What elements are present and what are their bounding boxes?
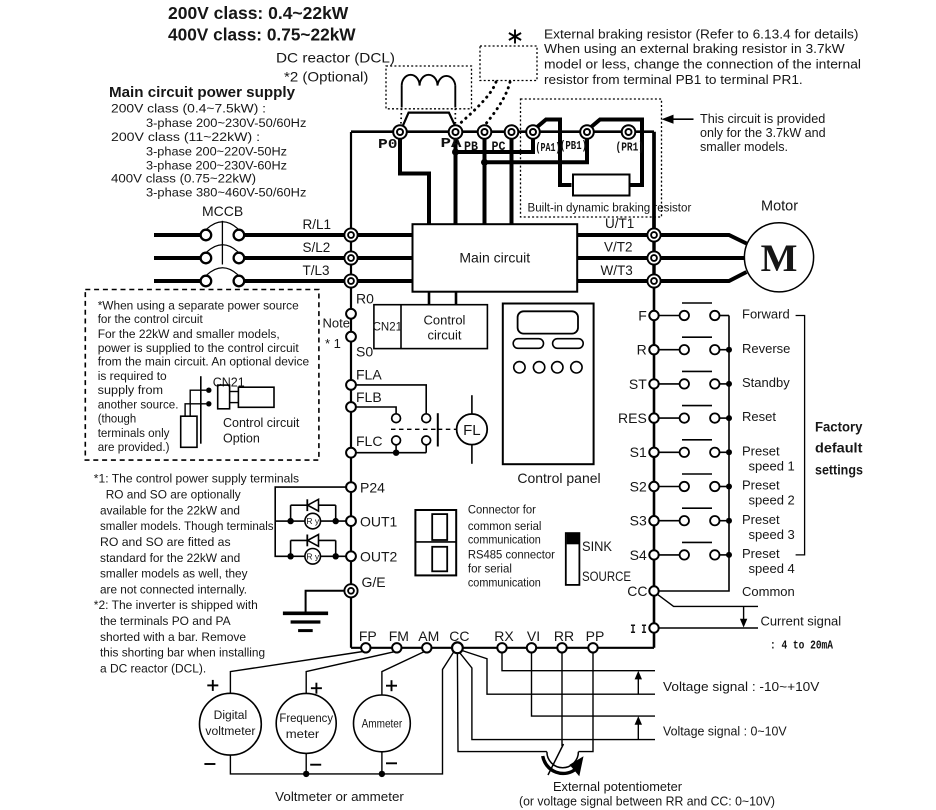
polarity minus — [310, 764, 321, 766]
svg-text:DC reactor (DCL): DC reactor (DCL) — [276, 50, 395, 66]
junction bus S1 — [726, 449, 732, 455]
breaker contact — [201, 230, 212, 241]
switch input R — [649, 337, 729, 354]
wire left bus — [350, 132, 352, 648]
svg-text:MCCB: MCCB — [202, 203, 243, 219]
terminal U/T1 — [647, 228, 660, 241]
polarity minus — [386, 762, 397, 764]
svg-text:Connector for: Connector for — [468, 503, 536, 517]
wire RX voltage top — [502, 653, 655, 671]
svg-text:When using an external bra: When using an external braking resistor … — [544, 42, 845, 56]
svg-text:*1: The control power supp: *1: The control power supply terminals — [94, 472, 299, 486]
wire FP to voltmeter — [230, 652, 363, 694]
svg-text:Standby: Standby — [742, 375, 790, 390]
wire phase input y=235 — [154, 233, 201, 237]
svg-text:power is supplied to the: power is supplied to the control circuit — [98, 341, 300, 355]
note this circuit 3.7kW — [700, 111, 826, 154]
svg-text:S3: S3 — [630, 513, 647, 529]
terminal PB1 — [580, 125, 594, 139]
block Main circuit — [413, 224, 578, 292]
svg-text:*2 (Optional): *2 (Optional) — [284, 69, 368, 85]
junction bus RES — [726, 415, 732, 421]
terminal T/L3 — [358, 279, 413, 283]
terminal PO — [393, 125, 407, 139]
wire motor W lead — [661, 272, 747, 281]
svg-text:R/L1: R/L1 — [303, 217, 332, 232]
svg-text:400V class (0.75~22kW): 400V class (0.75~22kW) — [111, 172, 256, 186]
wire to ground — [306, 591, 345, 612]
svg-text:Preset: Preset — [742, 443, 780, 458]
svg-text:settings: settings — [815, 463, 863, 478]
svg-text:Main circuit: Main circuit — [459, 249, 530, 265]
svg-text:resistor from terminal PB1: resistor from terminal PB1 to terminal P… — [544, 73, 803, 87]
wire PP to pot right — [578, 653, 593, 752]
svg-text:G/E: G/E — [362, 574, 386, 590]
wire dotted to PA — [460, 82, 497, 124]
wire bottom terminal row — [351, 647, 654, 649]
svg-text:smaller models. Though term: smaller models. Though terminals — [100, 519, 274, 533]
svg-text:circuit: circuit — [428, 328, 462, 343]
wire stub main-to-control 2 — [455, 292, 458, 305]
svg-text:I I: I I — [630, 622, 647, 637]
breaker contact — [201, 253, 212, 264]
wire meters common — [230, 652, 453, 774]
svg-text:speed 4: speed 4 — [749, 561, 795, 576]
svg-text:S1: S1 — [630, 444, 647, 460]
asterisk marker — [509, 30, 521, 44]
note external braking resistor — [544, 28, 861, 88]
wire FLA to contact — [356, 385, 426, 414]
svg-text:FLA: FLA — [356, 367, 382, 383]
svg-text:RO and SO are optionally: RO and SO are optionally — [106, 487, 242, 501]
wire dotted to PB — [487, 82, 511, 123]
svg-text:OUT1: OUT1 — [360, 513, 398, 529]
connector RS485 icon — [415, 510, 456, 575]
svg-text:Motor: Motor — [761, 199, 798, 215]
wire CC to pot left — [457, 653, 547, 751]
svg-text:Voltmeter or ammeter: Voltmeter or ammeter — [275, 789, 404, 804]
annotation arrow to 3.7kW box — [662, 115, 694, 124]
diode freewheel OUT2 — [291, 535, 336, 557]
svg-text:Option: Option — [223, 432, 260, 446]
svg-text:R: R — [637, 342, 647, 358]
junction bus S2 — [726, 484, 732, 490]
svg-text:Current signal: Current signal — [761, 614, 842, 629]
wire FLB to contact — [356, 407, 396, 414]
diode freewheel OUT1 — [291, 499, 336, 521]
wire CC to 0-10 bottom — [460, 653, 655, 740]
meter M2 digital voltmeter — [200, 693, 262, 755]
motor M1 — [744, 223, 813, 292]
wire stub main-to-control 1 — [428, 292, 431, 305]
ground symbol — [283, 613, 328, 630]
svg-text:W/T3: W/T3 — [601, 263, 633, 278]
junction PB branch — [481, 159, 488, 166]
svg-text:VI: VI — [527, 628, 540, 644]
terminal V/T2 — [647, 251, 660, 264]
switch input RES — [649, 406, 729, 423]
svg-text:FLC: FLC — [356, 433, 382, 449]
polarity plus — [207, 684, 218, 686]
svg-text:for the control circuit: for the control circuit — [98, 312, 204, 326]
svg-text:T/L3: T/L3 — [303, 263, 330, 278]
arrow voltage signal 2 — [637, 723, 639, 740]
svg-text:S0: S0 — [356, 344, 373, 360]
switch SINK/SOURCE — [566, 533, 580, 585]
wire FLC common — [356, 452, 426, 454]
wire PA to PA1 — [456, 139, 534, 152]
svg-text:V/T2: V/T2 — [604, 240, 633, 255]
bracket factory default — [796, 316, 805, 555]
wire P24 rail — [275, 487, 346, 556]
svg-text:: 4 to 20mA: : 4 to 20mA — [770, 639, 834, 653]
svg-text:3-phase 380~460V-50/60Hz: 3-phase 380~460V-50/60Hz — [146, 185, 306, 199]
svg-text:available for the 22kW and: available for the 22kW and — [100, 503, 240, 517]
svg-text:(PB1): (PB1) — [560, 140, 587, 153]
svg-text:RS485 connector: RS485 connector — [468, 547, 555, 561]
svg-text:P24: P24 — [360, 479, 385, 495]
svg-text:model or less, change the: model or less, change the connection of … — [544, 58, 861, 72]
svg-text:from the main circuit. An: from the main circuit. An optional devic… — [98, 354, 310, 368]
terminal OUT1 — [346, 516, 356, 526]
svg-text:S4: S4 — [630, 547, 647, 563]
circuit breaker MCCB — [154, 221, 345, 287]
wire PR1 to U/T1 bus — [652, 132, 656, 230]
svg-text:the terminals PO and PA: the terminals PO and PA — [100, 614, 231, 628]
block Control circuit with CN21 — [373, 305, 488, 349]
wire rail to OUT1 branch — [275, 520, 290, 522]
wire CC to -10+10 bottom — [462, 651, 655, 695]
svg-text:another source.: another source. — [98, 397, 179, 411]
terminal FLB — [346, 402, 356, 412]
svg-text:200V class (11~22kW) :: 200V class (11~22kW) : — [111, 130, 260, 144]
svg-text:*2: The inverter is shippe: *2: The inverter is shipped with — [94, 598, 258, 612]
terminal R/L1 — [358, 233, 413, 237]
svg-text:Note: Note — [323, 316, 350, 331]
wire dotted reactor to PO — [400, 109, 403, 125]
svg-text:smaller models as well, th: smaller models as well, they — [100, 567, 248, 581]
svg-text:U/T1: U/T1 — [605, 216, 634, 231]
svg-text:this shorting bar when ins: this shorting bar when installing — [100, 646, 265, 660]
terminal W/T3 — [647, 274, 660, 287]
power supply spec text — [111, 102, 306, 200]
wire phase input y=258 — [154, 256, 201, 260]
svg-text:200V class: 0.4~22kW: 200V class: 0.4~22kW — [168, 3, 349, 23]
breaker linkage — [221, 221, 223, 265]
wire AM to ammeter — [382, 652, 424, 695]
polarity plus — [386, 685, 397, 687]
svg-text:Control circuit: Control circuit — [223, 416, 300, 430]
svg-text:200V class (0.4~7.5kW) :: 200V class (0.4~7.5kW) : — [111, 102, 266, 116]
terminal PA1 — [526, 125, 540, 139]
terminal PR1 — [622, 125, 636, 139]
svg-text:3-phase 200~230V-50/60Hz: 3-phase 200~230V-50/60Hz — [146, 116, 306, 130]
terminal II — [649, 623, 658, 632]
arrow current into II — [743, 606, 745, 621]
junction bus ST — [726, 381, 732, 387]
svg-text:are not connected internall: are not connected internally. — [100, 582, 247, 596]
connector CN21 option drawing — [181, 376, 274, 448]
svg-text:(or voltage signal between: (or voltage signal between RR and CC: 0~… — [519, 794, 775, 809]
terminal OUT2 — [346, 551, 356, 561]
svg-text:RR: RR — [554, 628, 574, 644]
svg-text:External braking resistor (R: External braking resistor (Refer to 6.13… — [544, 28, 858, 42]
svg-text:speed 3: speed 3 — [749, 527, 795, 542]
terminal G/E — [344, 584, 357, 597]
svg-text:meter: meter — [286, 727, 320, 741]
terminal CC right — [649, 586, 658, 595]
relay coil FL — [457, 395, 488, 464]
svg-text:smaller models.: smaller models. — [700, 139, 788, 154]
wire PB down to main circuit — [483, 139, 487, 225]
svg-text:3-phase 200~220V-50Hz: 3-phase 200~220V-50Hz — [146, 144, 287, 158]
svg-text:P0: P0 — [378, 138, 398, 153]
svg-text:External potentiometer: External potentiometer — [553, 779, 683, 794]
svg-text:RO and SO are fitted as: RO and SO are fitted as — [100, 535, 231, 549]
svg-text:R y: R y — [306, 516, 320, 526]
svg-text:standard for the 22kW and: standard for the 22kW and — [100, 551, 240, 565]
svg-text:speed 1: speed 1 — [749, 458, 795, 473]
block Control panel — [503, 304, 594, 465]
svg-text:is required to: is required to — [98, 369, 167, 383]
junction bus S4 — [726, 552, 732, 558]
svg-text:400V class: 0.75~22kW: 400V class: 0.75~22kW — [168, 25, 356, 45]
wire right contact bus — [659, 316, 729, 592]
svg-text:default: default — [815, 441, 863, 456]
relay Ry OUT1 — [291, 513, 347, 529]
switch input S4 — [649, 542, 729, 559]
inductor DCL (DC reactor) — [386, 66, 472, 125]
meter M3 frequency meter — [276, 693, 336, 753]
svg-text:For the 22kW and smaller: For the 22kW and smaller models, — [98, 327, 280, 341]
terminal FLA — [346, 380, 356, 390]
junction freq common — [303, 771, 309, 777]
svg-text:F: F — [638, 307, 647, 323]
terminal CC bottom — [452, 642, 463, 653]
wire PB1 to resistor — [591, 120, 643, 186]
polarity plus — [311, 687, 322, 689]
terminal S0 — [346, 332, 356, 342]
svg-text:PB: PB — [464, 140, 478, 154]
svg-text:FP: FP — [359, 628, 377, 644]
note connector text — [468, 503, 555, 590]
svg-text:speed 2: speed 2 — [749, 493, 795, 508]
svg-text:communication: communication — [468, 576, 541, 590]
junction bus R — [726, 347, 732, 353]
svg-text:Ammeter: Ammeter — [362, 717, 403, 731]
svg-text:Main circuit power supply: Main circuit power supply — [109, 84, 296, 101]
wire PB to PB1 — [485, 139, 588, 163]
svg-text:FM: FM — [389, 628, 409, 644]
terminal PB — [478, 125, 492, 139]
svg-text:FL: FL — [463, 422, 481, 439]
terminal R0 — [346, 309, 356, 319]
svg-text:CC: CC — [449, 628, 469, 644]
svg-text:communication: communication — [468, 533, 541, 547]
switch input F — [649, 303, 729, 320]
svg-text:Forward: Forward — [742, 307, 790, 322]
svg-text:RES: RES — [618, 410, 647, 426]
svg-text:This circuit is provided: This circuit is provided — [700, 111, 825, 126]
svg-text:SINK: SINK — [582, 539, 612, 554]
terminal VI bottom — [527, 643, 536, 652]
relay Ry OUT2 — [291, 549, 347, 565]
terminal PP bottom — [588, 643, 597, 652]
relay contact FL changeover — [391, 413, 456, 453]
svg-text:Reverse: Reverse — [742, 341, 790, 356]
wire top DC bus — [351, 130, 654, 133]
wire motor U lead — [661, 235, 747, 244]
junction OUT1 left — [287, 518, 293, 524]
wire U/T1 output — [577, 233, 647, 237]
terminal RX bottom — [497, 643, 506, 652]
wire freq meter to common — [305, 753, 307, 774]
wire right bus upper (thick) — [652, 237, 655, 281]
wire PA1 to resistor — [537, 120, 572, 186]
svg-text:Control: Control — [424, 313, 466, 328]
label Factory default settings — [815, 420, 863, 478]
svg-text:R y: R y — [306, 551, 320, 561]
svg-text:a DC reactor (DCL).: a DC reactor (DCL). — [100, 662, 206, 676]
terminal P24 — [346, 482, 356, 492]
switch input ST — [649, 371, 729, 388]
svg-text:Preset: Preset — [742, 546, 780, 561]
svg-text:PP: PP — [586, 628, 605, 644]
wire PA down to main circuit — [454, 139, 458, 225]
svg-text:SOURCE: SOURCE — [582, 569, 631, 584]
svg-text:PC: PC — [492, 140, 506, 154]
svg-text:S/L2: S/L2 — [303, 240, 331, 255]
svg-text:Digital: Digital — [214, 708, 248, 722]
wire PO down-jog to main circuit — [400, 139, 429, 225]
potentiometer external — [543, 744, 584, 776]
polarity minus — [204, 763, 215, 765]
svg-text:for serial: for serial — [468, 561, 512, 575]
svg-text:ST: ST — [629, 376, 647, 392]
svg-text:Preset: Preset — [742, 478, 780, 493]
terminal AM bottom — [422, 643, 431, 652]
wire PO-PA shorting bar — [403, 113, 455, 126]
svg-text:(though: (though — [98, 412, 137, 426]
svg-text:only for the 3.7kW and: only for the 3.7kW and — [700, 125, 826, 140]
breaker contact — [201, 276, 212, 287]
wire dotted reactor to PA — [454, 109, 456, 125]
svg-text:RX: RX — [494, 628, 514, 644]
svg-text:FLB: FLB — [356, 389, 382, 405]
svg-text:Common: Common — [742, 584, 795, 599]
junction FLC — [393, 450, 399, 456]
svg-text:supply from: supply from — [98, 383, 163, 397]
svg-text:* 1: * 1 — [325, 336, 341, 351]
enclosure built-in braking circuit — [521, 99, 662, 217]
terminal FP bottom — [361, 643, 370, 652]
svg-text:OUT2: OUT2 — [360, 548, 398, 564]
wire right bus lower — [653, 281, 656, 648]
wire ammeter to common — [381, 752, 383, 774]
svg-text:*When using a separate pow: *When using a separate power source — [98, 299, 299, 313]
svg-text:Preset: Preset — [742, 512, 780, 527]
svg-text:voltmeter: voltmeter — [205, 724, 255, 738]
wire motor V lead — [661, 256, 745, 260]
svg-text:S2: S2 — [630, 478, 647, 494]
junction ammeter common — [379, 771, 385, 777]
svg-text:Frequency: Frequency — [279, 711, 333, 725]
svg-text:shorted with a bar. Remove: shorted with a bar. Remove — [100, 630, 246, 644]
junction bus S3 — [726, 518, 732, 524]
wire CC signal — [657, 594, 758, 606]
svg-text:Reset: Reset — [742, 409, 776, 424]
junction OUT2 left — [287, 553, 293, 559]
wire W/T3 output — [577, 279, 647, 283]
terminal FLC — [346, 448, 356, 458]
terminal S/L2 — [358, 256, 413, 260]
svg-text:terminals only: terminals only — [98, 426, 171, 440]
switch input S1 — [649, 440, 729, 457]
terminal PC — [505, 125, 519, 139]
junction PA branch — [452, 149, 459, 156]
terminal PA — [449, 125, 463, 139]
wire V/T2 output — [577, 256, 647, 260]
wire FM to frequency meter — [306, 652, 394, 694]
svg-text:Control panel: Control panel — [517, 470, 600, 486]
svg-text:R0: R0 — [356, 291, 374, 307]
wire phase input y=281 — [154, 279, 201, 283]
svg-text:CC: CC — [627, 583, 647, 599]
wire PC down to main circuit — [510, 139, 514, 225]
meter M4 ammeter — [354, 695, 411, 752]
svg-text:are provided.): are provided.) — [98, 440, 170, 454]
svg-text:Factory: Factory — [815, 420, 863, 435]
svg-text:(PA1): (PA1) — [536, 142, 561, 155]
note *1 *2 text — [94, 472, 299, 676]
svg-text:Built-in dynamic braking re: Built-in dynamic braking resistor — [528, 201, 692, 215]
wire RR to pot wiper — [561, 653, 563, 747]
svg-text:Voltage signal : -10~+10V: Voltage signal : -10~+10V — [663, 679, 820, 694]
terminal FM bottom — [392, 643, 401, 652]
svg-text:CN21: CN21 — [373, 322, 402, 334]
svg-text:(PR1): (PR1) — [616, 142, 645, 155]
wire II signal — [659, 627, 758, 629]
junction OUT2 right — [333, 553, 339, 559]
svg-text:M: M — [761, 237, 798, 280]
svg-text:AM: AM — [418, 628, 439, 644]
svg-text:Voltage signal : 0~10V: Voltage signal : 0~10V — [663, 724, 787, 739]
junction OUT1 right — [333, 518, 339, 524]
terminal RR bottom — [557, 643, 566, 652]
resistor external braking (optional) — [480, 46, 537, 81]
arrow voltage signal 1 — [637, 678, 639, 695]
switch input S2 — [649, 474, 729, 491]
svg-text:common serial: common serial — [468, 519, 542, 533]
note box separate power source — [85, 290, 319, 461]
wire VI voltage top — [532, 653, 656, 717]
svg-text:PA: PA — [441, 137, 463, 152]
resistor built-in dynamic braking — [573, 175, 630, 196]
switch input S3 — [649, 508, 729, 525]
